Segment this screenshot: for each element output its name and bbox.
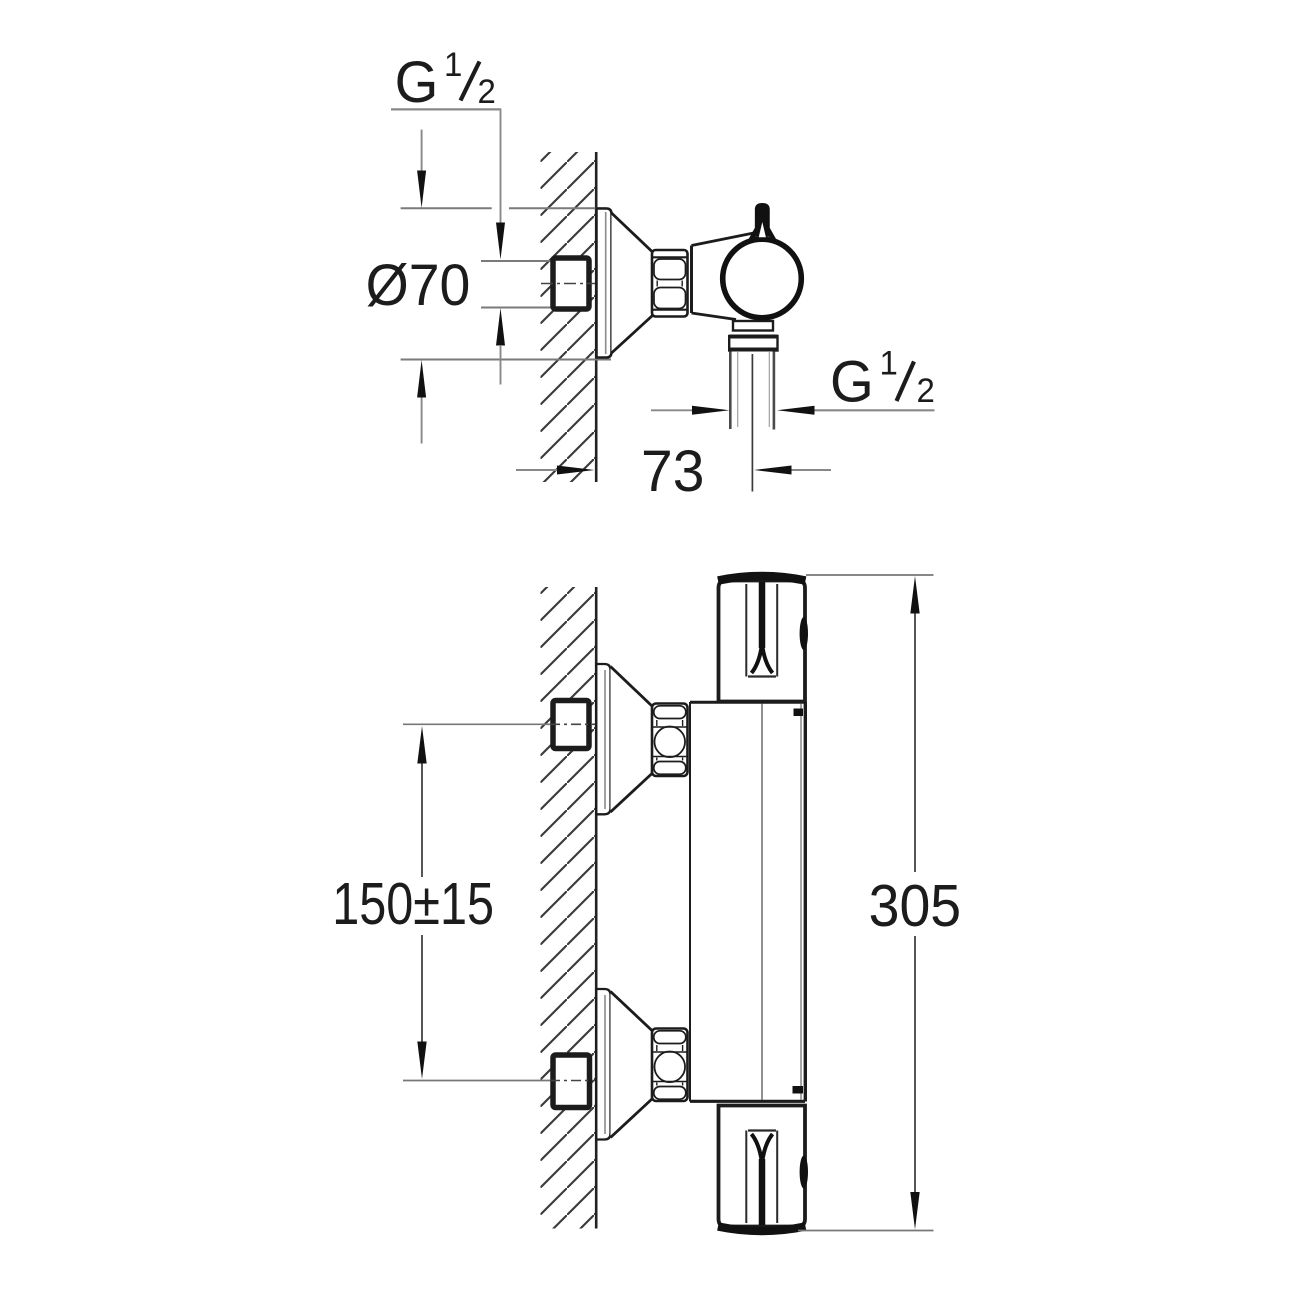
flange cone (top view) <box>612 213 653 353</box>
valve body (top view) <box>692 233 771 320</box>
lower wall fitting square (front view) <box>553 1055 590 1108</box>
pipe (top view) <box>732 352 773 430</box>
wall edge (front view) <box>595 587 598 1229</box>
pipe centre line (top view) <box>751 354 753 492</box>
coupling nut (top view) <box>729 336 777 351</box>
svg-text:G: G <box>395 50 439 115</box>
shower outlet ring (top view) <box>733 321 773 331</box>
valve body top silhouette line over knob <box>692 233 756 246</box>
hex nut (top view) <box>652 250 688 317</box>
svg-text:Ø70: Ø70 <box>366 254 471 318</box>
extension line 150 bottom <box>403 1080 550 1082</box>
dimension 305 (front view) <box>798 575 961 1231</box>
dimension 150+-15 (front view) <box>332 726 494 1079</box>
centre line lower fitting <box>550 1080 595 1082</box>
upper knob (front view) <box>718 576 808 702</box>
wall edge (top view) <box>595 152 598 482</box>
lower flange plate (front view) <box>596 989 610 1140</box>
extension line fitting top <box>481 260 551 262</box>
thermostat knob circle (top view) <box>723 239 802 318</box>
dimension 73 (top view) <box>516 440 831 505</box>
svg-text:1: 1 <box>880 345 898 383</box>
inlet marker square top <box>794 709 804 717</box>
svg-text:150±15: 150±15 <box>332 872 494 937</box>
dimension G1/2 (top left) <box>391 47 505 385</box>
lower flange cone (front view) <box>611 992 653 1138</box>
svg-text:2: 2 <box>917 373 935 411</box>
extension line 150 top <box>403 723 550 725</box>
svg-text:2: 2 <box>478 74 496 112</box>
upper hex nut (front view) <box>652 704 688 777</box>
dimension O70 (top view) <box>366 130 471 444</box>
extension line flange bottom <box>401 359 611 361</box>
svg-text:G: G <box>830 350 874 415</box>
wall fitting square (top view) <box>553 258 589 309</box>
upper flange plate (front view) <box>596 664 610 814</box>
extension line fitting bottom <box>481 307 551 309</box>
wall hatching (top view) <box>541 152 597 482</box>
svg-text:73: 73 <box>641 440 704 505</box>
inlet marker square bottom <box>793 1086 804 1094</box>
lower hex nut (front view) <box>652 1029 688 1102</box>
upper wall fitting square (front view) <box>553 701 589 749</box>
lower knob (front view) <box>718 1106 808 1232</box>
centre line upper fitting <box>550 723 595 725</box>
flange plate (top view) <box>597 209 612 358</box>
handle stub on top of knob <box>750 204 776 239</box>
centre line through fitting (top view) <box>541 283 595 285</box>
mixer body (front view) <box>690 702 805 1102</box>
dimension G1/2 (right of pipe) <box>651 345 935 415</box>
upper flange cone (front view) <box>611 667 653 813</box>
svg-text:305: 305 <box>869 873 962 939</box>
wall hatching (front view) <box>541 587 596 1229</box>
svg-text:1: 1 <box>444 47 462 85</box>
extension line flange top <box>401 207 492 209</box>
